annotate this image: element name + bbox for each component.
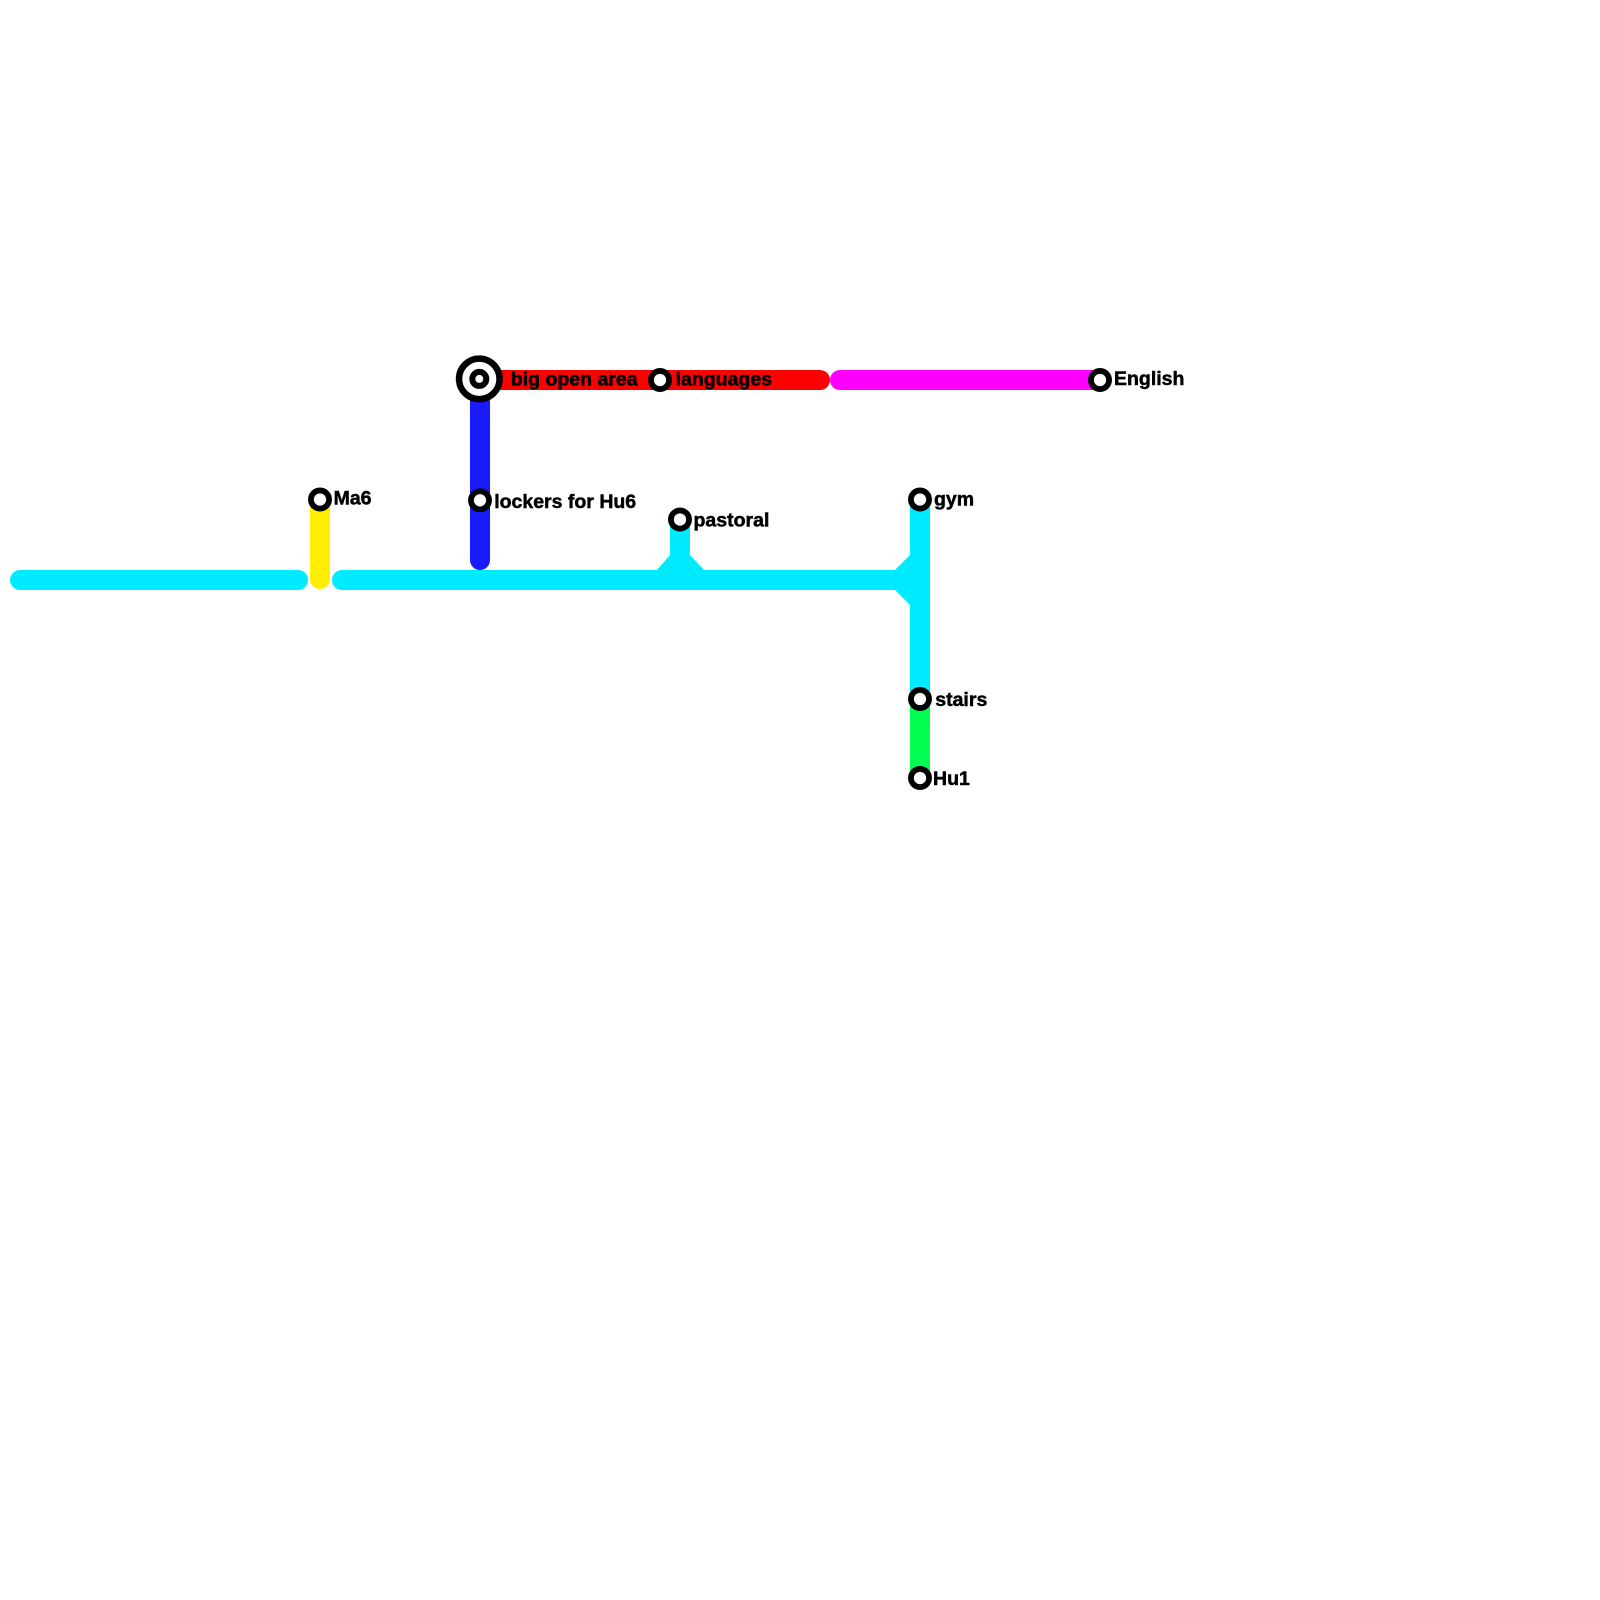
node lockers for Hu6 bbox=[471, 491, 489, 509]
svg-text:big open area: big open area bbox=[511, 368, 638, 390]
svg-text:Hu1: Hu1 bbox=[933, 768, 970, 790]
node English bbox=[1091, 371, 1109, 389]
wire red line big open area to languages bbox=[480, 370, 820, 390]
node pastoral bbox=[671, 510, 689, 528]
svg-text:pastoral: pastoral bbox=[694, 510, 770, 532]
wire cyan gym vertical line bbox=[910, 500, 930, 699]
junction flare cyan corridor to gym line bbox=[895, 555, 910, 605]
wire magenta line to English bbox=[840, 370, 1100, 390]
node languages bbox=[651, 371, 669, 389]
node Ma6 bbox=[311, 490, 329, 508]
svg-text:stairs: stairs bbox=[935, 689, 987, 711]
node gym bbox=[911, 490, 929, 508]
wire cyan pastoral branch stub bbox=[657, 520, 704, 580]
svg-text:languages: languages bbox=[676, 368, 773, 390]
wire green line stairs to Hu1 bbox=[910, 699, 930, 778]
node stairs bbox=[911, 690, 929, 708]
wire blue line big open area to lockers bbox=[470, 379, 490, 560]
node big open area (interchange) bbox=[459, 359, 500, 400]
wire cyan main corridor left segment bbox=[20, 570, 298, 590]
svg-text:gym: gym bbox=[934, 489, 974, 511]
svg-text:Ma6: Ma6 bbox=[334, 488, 372, 510]
wire yellow Ma6 spur bbox=[310, 500, 330, 579]
wire cyan main corridor middle segment bbox=[342, 570, 895, 590]
node Hu1 bbox=[911, 769, 929, 787]
svg-text:lockers for Hu6: lockers for Hu6 bbox=[494, 491, 636, 513]
svg-text:English: English bbox=[1114, 368, 1184, 390]
